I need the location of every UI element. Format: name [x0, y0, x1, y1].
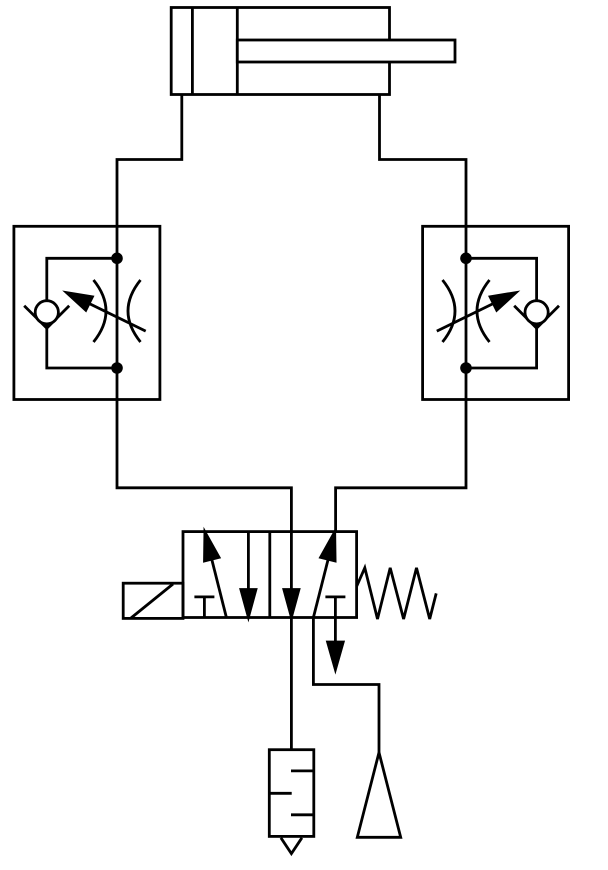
silencer baffle 1: [291, 770, 314, 773]
wire cylinder right port to node: [380, 95, 467, 227]
chamber1 blocked port T: [194, 596, 214, 599]
junction dot left bottom: [111, 362, 123, 374]
adjust arrow left valve: [89, 304, 146, 332]
wire cylinder left port to node: [117, 95, 182, 227]
throttle arc right-left: [443, 280, 456, 342]
wire main line through left valve: [116, 226, 119, 399]
silencer body: [269, 750, 314, 837]
exhaust arrow below valve: [334, 597, 337, 646]
chamber2 up arrow: [313, 559, 328, 617]
solenoid coil: [123, 583, 183, 618]
cylinder 1A1 body: [171, 8, 389, 95]
chamber2 blocked port T: [325, 596, 345, 599]
junction dot right bottom: [460, 362, 472, 374]
check valve ball left: [35, 301, 58, 324]
flow control valve 1V3 (right) enclosure: [423, 226, 569, 399]
silencer baffle 2: [269, 792, 291, 795]
silencer baffle 3: [291, 813, 314, 816]
directional valve chamber divider: [268, 532, 271, 618]
adjust arrow right valve: [437, 304, 494, 332]
wire valve port 1 to silencer: [290, 618, 293, 750]
chamber2 down arrow: [290, 532, 293, 592]
silencer outlet chevron: [281, 838, 302, 854]
junction dot right top: [460, 252, 472, 264]
flow control valve 1V2 (left) enclosure: [14, 226, 160, 399]
return spring: [357, 568, 437, 619]
cylinder piston line right: [236, 8, 239, 95]
throttle arc left-right: [128, 280, 141, 342]
exhaust triangle: [357, 753, 400, 838]
wire bypass left valve: [47, 258, 117, 368]
throttle arc left-left: [94, 280, 107, 342]
directional valve 1V1 body: [183, 532, 357, 618]
check valve seat left: [24, 306, 69, 328]
wire bypass right valve: [466, 258, 537, 368]
throttle arc right-right: [477, 280, 490, 342]
wire left valve to directional valve port 4: [117, 400, 291, 532]
check valve ball right: [525, 301, 548, 324]
cylinder piston line left: [191, 8, 194, 95]
wire right valve to directional valve port 2: [336, 400, 466, 532]
wire valve port 3 to exhaust: [313, 618, 379, 754]
check valve seat right: [514, 306, 559, 328]
cylinder piston rod: [237, 40, 455, 62]
chamber1 up arrow: [212, 559, 227, 617]
wire main line through right valve: [465, 226, 468, 399]
junction dot left top: [111, 252, 123, 264]
chamber1 down arrow: [247, 532, 250, 592]
